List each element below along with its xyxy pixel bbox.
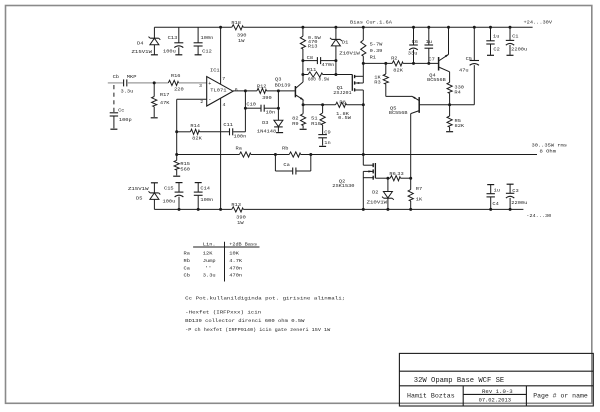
label R9 value 82 bbox=[292, 116, 299, 122]
resistor R2 bbox=[392, 61, 438, 66]
svg-text:R10: R10 bbox=[311, 121, 321, 127]
ground under R9 bbox=[300, 128, 307, 130]
node Q3 collector junction bbox=[301, 73, 304, 76]
label Q4 bbox=[429, 73, 436, 79]
label +24...30V bbox=[524, 20, 553, 26]
label C4 bbox=[492, 201, 498, 207]
wire dashed option to Cc bbox=[113, 85, 115, 112]
label R16 bbox=[171, 73, 181, 79]
node Q2 source rail junction bbox=[362, 208, 365, 211]
label C3 value 2200u bbox=[511, 200, 527, 206]
svg-text:R2: R2 bbox=[391, 56, 397, 62]
svg-text:1N4148: 1N4148 bbox=[257, 129, 276, 135]
label R14 value 82K bbox=[192, 136, 202, 142]
capacitor C3 bbox=[506, 184, 514, 209]
svg-text:32W Opamp Base WCF SE: 32W Opamp Base WCF SE bbox=[414, 377, 504, 385]
node output rail junction bbox=[362, 153, 365, 156]
svg-text:100p: 100p bbox=[119, 117, 132, 123]
label R8 bbox=[339, 99, 345, 105]
svg-text:Q3: Q3 bbox=[275, 77, 282, 83]
node R13v rail junction bbox=[301, 26, 304, 29]
label pin7 bbox=[222, 76, 225, 82]
label D2 value Z10V1W bbox=[367, 200, 388, 206]
label C7 bbox=[428, 56, 434, 62]
svg-text:100u: 100u bbox=[163, 199, 176, 205]
svg-text:4: 4 bbox=[223, 102, 226, 108]
op-amp U1 triangle bbox=[207, 77, 233, 107]
svg-text:1W: 1W bbox=[238, 38, 244, 44]
label D1 value Z10V1W bbox=[339, 51, 360, 57]
node C8 left junction bbox=[301, 59, 304, 62]
svg-text:33u: 33u bbox=[408, 50, 418, 56]
svg-text:1K: 1K bbox=[416, 196, 422, 202]
label C14 value 100n bbox=[200, 197, 213, 203]
node C15 rail junction bbox=[178, 208, 181, 211]
node R1-R2 junction bbox=[362, 62, 365, 65]
svg-text:Z10V1W: Z10V1W bbox=[339, 51, 360, 57]
resistor R11 bbox=[303, 72, 352, 77]
svg-text:Jump: Jump bbox=[203, 258, 216, 264]
label C5 value 47u bbox=[459, 68, 469, 74]
capacitor C13 bbox=[174, 27, 183, 54]
label R4 bbox=[454, 89, 460, 95]
label D4 value Z15V1W bbox=[132, 49, 153, 55]
wire +V top rail (right of R18) bbox=[243, 26, 532, 28]
node C3 rail junction bbox=[509, 208, 512, 211]
label R2 value 82K bbox=[393, 68, 403, 74]
node Ca right junction bbox=[309, 153, 312, 156]
label R8 value 0.5W bbox=[338, 115, 351, 121]
svg-text:R8: R8 bbox=[339, 99, 345, 105]
label minus input bbox=[208, 97, 211, 103]
label Q3 bbox=[275, 77, 282, 83]
label D1 bbox=[342, 39, 348, 45]
label R6 bbox=[389, 171, 395, 177]
capacitor C12 bbox=[194, 27, 203, 54]
label Q2 bbox=[339, 179, 346, 185]
svg-text:Page # or name: Page # or name bbox=[533, 393, 588, 400]
label D5 value Z15V1W bbox=[128, 186, 149, 192]
wire R2 line left bbox=[363, 62, 392, 64]
node C14 rail junction bbox=[197, 208, 200, 211]
node D2 rail junction bbox=[386, 208, 389, 211]
label R12 value 390 bbox=[262, 95, 272, 101]
svg-text:-P ch hexfet (IRFP9140) icin g: -P ch hexfet (IRFP9140) icin gate zeneri… bbox=[185, 327, 330, 333]
svg-text:390: 390 bbox=[236, 215, 246, 221]
label R6 value 33 bbox=[397, 171, 403, 177]
svg-text:51: 51 bbox=[311, 116, 318, 122]
capacitor C15 bbox=[175, 183, 184, 210]
label R16 value 220 bbox=[174, 86, 184, 92]
note line 4 bbox=[185, 327, 330, 333]
node R12-D3 junction bbox=[277, 89, 280, 92]
node pin2-R14 junction bbox=[175, 130, 178, 133]
svg-text:1W: 1W bbox=[237, 220, 243, 226]
svg-text:Z15V1W: Z15V1W bbox=[128, 186, 149, 192]
transistor Q5 bbox=[386, 96, 450, 178]
svg-text:0.5W: 0.5W bbox=[338, 115, 351, 121]
svg-text:470n: 470n bbox=[229, 273, 242, 279]
label Q1 bbox=[337, 85, 344, 91]
svg-text:D4: D4 bbox=[137, 41, 143, 47]
label R2 bbox=[391, 56, 397, 62]
svg-text:D1: D1 bbox=[342, 39, 348, 45]
node C4 rail junction bbox=[489, 208, 492, 211]
label D3 bbox=[262, 120, 268, 126]
svg-text:BD139: BD139 bbox=[275, 82, 291, 88]
svg-text:C12: C12 bbox=[202, 49, 212, 55]
svg-text:R9: R9 bbox=[292, 121, 299, 127]
node input junction bbox=[153, 81, 156, 84]
svg-text:3.3u: 3.3u bbox=[203, 273, 216, 279]
transistor Q4 bbox=[439, 27, 450, 72]
node output riser top bbox=[244, 89, 247, 92]
svg-text:IC1: IC1 bbox=[210, 68, 220, 74]
svg-text:100n: 100n bbox=[201, 35, 214, 41]
svg-text:R4: R4 bbox=[454, 89, 460, 95]
svg-text:5-7W: 5-7W bbox=[370, 42, 383, 48]
svg-text:R12: R12 bbox=[257, 83, 267, 89]
label C5 bbox=[466, 56, 472, 62]
svg-text:7: 7 bbox=[222, 76, 225, 82]
svg-text:C13: C13 bbox=[168, 35, 178, 41]
label D2 bbox=[372, 190, 378, 196]
capacitor C8 bbox=[303, 57, 336, 64]
svg-text:-: - bbox=[208, 97, 211, 103]
svg-text:220: 220 bbox=[174, 86, 184, 92]
svg-text:1u: 1u bbox=[494, 187, 500, 193]
label C6 bbox=[412, 39, 418, 45]
svg-text:C11: C11 bbox=[223, 122, 233, 128]
svg-text:12K: 12K bbox=[203, 251, 213, 257]
svg-text:6: 6 bbox=[235, 87, 238, 93]
resistor R17 bbox=[152, 83, 157, 117]
svg-text:R7: R7 bbox=[416, 186, 422, 192]
label R18 value 390 bbox=[237, 32, 247, 38]
svg-text:R17: R17 bbox=[160, 92, 170, 98]
label IC1 bbox=[210, 68, 220, 74]
resistor R5 bbox=[447, 105, 452, 131]
capacitor Cb bbox=[124, 79, 127, 86]
svg-text:1n: 1n bbox=[324, 140, 330, 146]
svg-text:Cb: Cb bbox=[184, 273, 190, 279]
label C15 bbox=[164, 186, 174, 192]
svg-text:D2: D2 bbox=[372, 190, 378, 196]
svg-text:R13: R13 bbox=[308, 43, 318, 49]
label Ca bbox=[283, 162, 289, 168]
label R4 value 330 bbox=[454, 84, 464, 90]
svg-text:C15: C15 bbox=[164, 186, 174, 192]
resistor R7 bbox=[408, 178, 413, 209]
svg-text:C10: C10 bbox=[246, 102, 256, 108]
label C7 value 1u bbox=[426, 39, 432, 45]
ground under R15 bbox=[173, 175, 180, 177]
svg-text:Q1: Q1 bbox=[337, 85, 344, 91]
node pin7 rail junction bbox=[219, 26, 222, 29]
label C15 value 100u bbox=[163, 199, 176, 205]
note line 2 bbox=[185, 310, 261, 316]
svg-text:C1: C1 bbox=[512, 33, 518, 39]
resistor R6 bbox=[388, 176, 411, 181]
label R1 0.39 bbox=[370, 48, 383, 54]
capacitor Cc bbox=[110, 113, 118, 129]
label C13 value 100u bbox=[163, 49, 176, 55]
resistor R1 bbox=[361, 27, 366, 63]
label C6 value 33u bbox=[408, 50, 418, 56]
svg-text:R18: R18 bbox=[231, 20, 241, 26]
label -24...30 bbox=[526, 213, 551, 219]
label pin2 bbox=[200, 99, 203, 105]
svg-text:100n: 100n bbox=[234, 134, 247, 140]
ground under D4 bbox=[151, 54, 158, 56]
svg-text:100u: 100u bbox=[163, 49, 176, 55]
node R9 junction bbox=[302, 103, 305, 106]
svg-text:-Hexfet (IRFPxxx) icin: -Hexfet (IRFPxxx) icin bbox=[185, 310, 261, 316]
label C4 value 1u bbox=[494, 187, 500, 193]
label R13 value 1W bbox=[237, 220, 243, 226]
svg-text:82: 82 bbox=[292, 116, 299, 122]
resistor R15 bbox=[174, 155, 179, 176]
svg-text:82K: 82K bbox=[192, 136, 202, 142]
diode D3 bbox=[274, 91, 283, 132]
label R10 bbox=[311, 121, 321, 127]
label R13 value 390 bbox=[236, 215, 246, 221]
svg-text:82K: 82K bbox=[393, 68, 403, 74]
transistor Q2 bbox=[363, 155, 388, 210]
label Cb bbox=[113, 74, 119, 80]
transistor Q3 bbox=[295, 75, 304, 105]
svg-text:C6: C6 bbox=[412, 39, 418, 45]
resistor R13 470 bbox=[300, 27, 305, 74]
node R7 rail junction bbox=[409, 208, 412, 211]
svg-text:C9: C9 bbox=[324, 130, 330, 136]
svg-text:D3: D3 bbox=[262, 120, 268, 126]
svg-text:3.3u: 3.3u bbox=[121, 88, 134, 94]
zener D1 bbox=[330, 27, 342, 74]
label Q3 BD139 bbox=[275, 82, 291, 88]
node D1 gate junction bbox=[334, 73, 337, 76]
label C11 value 100n bbox=[234, 134, 247, 140]
svg-text:1K: 1K bbox=[374, 74, 380, 80]
svg-text:Bias Cur.1.6A: Bias Cur.1.6A bbox=[350, 20, 392, 26]
resistor R12 bbox=[257, 88, 267, 93]
label plus input bbox=[208, 81, 211, 87]
node Ca left junction bbox=[274, 153, 277, 156]
label D4 bbox=[137, 41, 143, 47]
label C11 bbox=[223, 122, 233, 128]
node R3 tap junction bbox=[384, 62, 387, 65]
svg-text:R6: R6 bbox=[389, 171, 395, 177]
resistor R18 bbox=[232, 25, 244, 30]
node C6 rail junction bbox=[412, 26, 415, 29]
wire pin7 to +rail bbox=[220, 27, 222, 84]
label TL071 bbox=[210, 88, 226, 94]
capacitor C2 bbox=[486, 27, 494, 55]
label R10 value 51 bbox=[311, 116, 318, 122]
capacitor C11 bbox=[230, 128, 246, 135]
zener D5 bbox=[149, 183, 161, 210]
svg-text:R13: R13 bbox=[231, 202, 241, 208]
resistor R16 bbox=[168, 80, 178, 85]
label C10 bbox=[246, 102, 256, 108]
svg-text:30..35W rms: 30..35W rms bbox=[532, 142, 568, 148]
node R6-R7 junction bbox=[409, 177, 412, 180]
table component settings bbox=[184, 241, 260, 281]
label R13v 470 bbox=[308, 39, 318, 45]
label C8 value 470n bbox=[322, 62, 335, 68]
label Bias Cur.1.6A bbox=[350, 20, 392, 26]
resistor R8 bbox=[336, 102, 364, 107]
ground under R17 bbox=[151, 117, 158, 119]
svg-text:2: 2 bbox=[200, 99, 203, 105]
ground under C1 bbox=[507, 54, 514, 56]
resistor R14 bbox=[177, 129, 230, 134]
svg-text:Cc Pot.kullanildiginda pot.: Cc Pot.kullanildiginda pot. girisine ali… bbox=[185, 295, 345, 301]
svg-text:Z15V1W: Z15V1W bbox=[132, 49, 153, 55]
node C6 bottom junction bbox=[412, 62, 415, 65]
svg-text:47K: 47K bbox=[160, 100, 170, 106]
svg-text:600 0.5W: 600 0.5W bbox=[308, 77, 329, 83]
capacitor C4 bbox=[487, 185, 495, 210]
transistor Q1 bbox=[352, 63, 363, 154]
wire +V top rail (left of R18) bbox=[154, 26, 231, 28]
svg-text:Ra: Ra bbox=[236, 146, 242, 152]
label R13v 0.5W bbox=[308, 35, 321, 41]
label R15 bbox=[180, 161, 190, 167]
wire R12 to Q3 base bbox=[267, 90, 295, 92]
svg-text:+: + bbox=[208, 81, 211, 87]
svg-text:8 Ohm: 8 Ohm bbox=[540, 149, 557, 155]
capacitor C10 bbox=[245, 105, 278, 112]
svg-text:C4: C4 bbox=[492, 201, 498, 207]
label C9 bbox=[324, 130, 330, 136]
wire Ra to Rb bbox=[251, 154, 289, 156]
svg-text:Cb: Cb bbox=[113, 74, 119, 80]
svg-text:C7: C7 bbox=[428, 56, 434, 62]
svg-text:C14: C14 bbox=[200, 186, 210, 192]
svg-text:470n: 470n bbox=[229, 265, 242, 271]
svg-text:10K: 10K bbox=[229, 251, 239, 257]
svg-text:TL071: TL071 bbox=[210, 88, 226, 94]
label R5 bbox=[455, 118, 461, 124]
label R17 value 47K bbox=[160, 100, 170, 106]
svg-text:Hamit Boztas: Hamit Boztas bbox=[407, 393, 455, 400]
label R18 bbox=[231, 20, 241, 26]
label C12 bbox=[202, 49, 212, 55]
ground under D3 bbox=[276, 132, 283, 134]
node feedback tap junction bbox=[175, 153, 178, 156]
capacitor C5 bbox=[450, 27, 479, 105]
label R7 value 1K bbox=[416, 196, 422, 202]
node C7 bottom junction bbox=[427, 62, 430, 65]
label R17 bbox=[160, 92, 170, 98]
label D3 value 1N4148 bbox=[257, 129, 276, 135]
svg-text:33: 33 bbox=[397, 171, 403, 177]
ground under R5 bbox=[446, 131, 453, 133]
svg-text:R3: R3 bbox=[374, 80, 380, 86]
svg-text:Ca: Ca bbox=[283, 162, 289, 168]
wire R16 to pin3 bbox=[179, 82, 207, 84]
resistor R10 bbox=[320, 105, 325, 135]
label R5 value 82K bbox=[455, 123, 465, 129]
resistor R4 bbox=[447, 72, 452, 105]
label C12 value 100n bbox=[201, 35, 214, 41]
svg-text:R11: R11 bbox=[307, 67, 317, 73]
node R10 junction bbox=[321, 103, 324, 106]
svg-text:47u: 47u bbox=[459, 68, 469, 74]
capacitor Ca bbox=[275, 155, 310, 175]
title block bbox=[399, 353, 593, 406]
svg-text:R14: R14 bbox=[190, 123, 200, 129]
svg-text:MKP: MKP bbox=[127, 74, 137, 80]
node Q4 emitter rail junction bbox=[447, 26, 450, 29]
ground under C13 bbox=[175, 54, 182, 56]
svg-text:Rb: Rb bbox=[282, 146, 288, 152]
note line 1 bbox=[185, 295, 345, 301]
svg-text:1u: 1u bbox=[426, 39, 432, 45]
capacitor C14 bbox=[194, 183, 203, 210]
svg-text:R16: R16 bbox=[171, 73, 181, 79]
svg-text:Ra: Ra bbox=[184, 251, 190, 257]
svg-text:BC556B: BC556B bbox=[427, 77, 446, 83]
label Q5 BC556B bbox=[389, 110, 408, 116]
label R7 bbox=[416, 186, 422, 192]
svg-text:BD139 collector direnci 600 oh: BD139 collector direnci 600 ohm 0.5W bbox=[185, 318, 304, 324]
svg-text:390: 390 bbox=[237, 32, 247, 38]
label R12 bbox=[257, 83, 267, 89]
svg-text:0.39: 0.39 bbox=[370, 48, 383, 54]
resistor Ra bbox=[239, 152, 251, 157]
label MKP bbox=[127, 74, 137, 80]
label R11 value 600 0.5W bbox=[308, 77, 329, 83]
node C2 rail junction bbox=[489, 26, 492, 29]
node C7 rail junction bbox=[427, 26, 430, 29]
capacitor C6 bbox=[409, 27, 418, 63]
node D1 rail junction bbox=[334, 26, 337, 29]
label 8 Ohm bbox=[540, 149, 557, 155]
label Q4 BC556B bbox=[427, 77, 446, 83]
svg-text:Cc: Cc bbox=[118, 107, 124, 113]
svg-text:C2: C2 bbox=[493, 47, 499, 53]
label Q1 2SJ201 bbox=[333, 90, 352, 96]
svg-text:Rev 1.0-3: Rev 1.0-3 bbox=[482, 388, 513, 395]
svg-text:Ca: Ca bbox=[184, 265, 190, 271]
label R1 5-7W bbox=[370, 42, 383, 48]
label pin3 bbox=[199, 83, 202, 89]
svg-text:2SK1530: 2SK1530 bbox=[332, 183, 354, 189]
svg-text:+24...30V: +24...30V bbox=[524, 20, 553, 26]
label R13 bbox=[231, 202, 241, 208]
svg-text:390: 390 bbox=[262, 95, 272, 101]
svg-text:Rb: Rb bbox=[184, 258, 190, 264]
wire pin4 to -rail bbox=[220, 98, 222, 209]
node C8 right junction bbox=[334, 59, 337, 62]
wire -V bottom rail (left of R13) bbox=[154, 208, 231, 210]
label Cc bbox=[118, 107, 124, 113]
node C5 rail junction bbox=[473, 26, 476, 29]
label R9 bbox=[292, 121, 299, 127]
svg-text:'': '' bbox=[205, 265, 211, 271]
node D2 gate junction bbox=[386, 177, 389, 180]
node R4-R5-Q5 junction bbox=[448, 103, 451, 106]
label C1 bbox=[512, 33, 518, 39]
label C8 bbox=[307, 55, 313, 61]
svg-text:R15: R15 bbox=[180, 161, 190, 167]
svg-text:100n: 100n bbox=[200, 197, 213, 203]
label C3 bbox=[512, 188, 518, 194]
svg-text:Z10V1W: Z10V1W bbox=[367, 200, 388, 206]
wire output line left bbox=[177, 154, 240, 156]
